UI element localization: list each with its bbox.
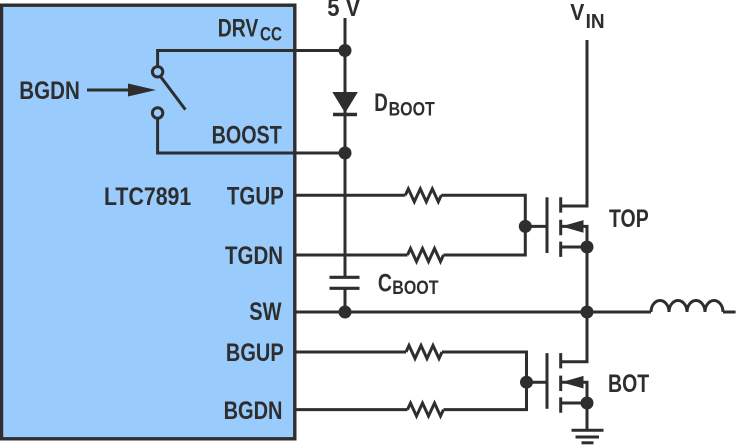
svg-text:TGUP: TGUP [227,181,284,209]
svg-text:TGDN: TGDN [225,241,283,269]
svg-text:BOT: BOT [608,370,649,398]
svg-text:BOOST: BOOST [212,121,282,149]
svg-text:V: V [570,0,584,25]
svg-text:C: C [378,269,392,297]
svg-text:LTC7891: LTC7891 [104,182,191,210]
svg-text:D: D [374,88,388,116]
svg-text:BGDN: BGDN [19,76,80,104]
svg-text:CC: CC [260,23,282,45]
svg-text:5 V: 5 V [327,0,360,21]
svg-text:BOOT: BOOT [389,98,435,120]
svg-text:BGDN: BGDN [224,397,283,425]
svg-text:SW: SW [249,298,282,326]
svg-text:TOP: TOP [609,205,649,233]
svg-text:BOOT: BOOT [392,277,438,299]
svg-text:IN: IN [586,11,605,34]
svg-text:DRV: DRV [218,14,259,42]
svg-text:BGUP: BGUP [226,339,284,367]
